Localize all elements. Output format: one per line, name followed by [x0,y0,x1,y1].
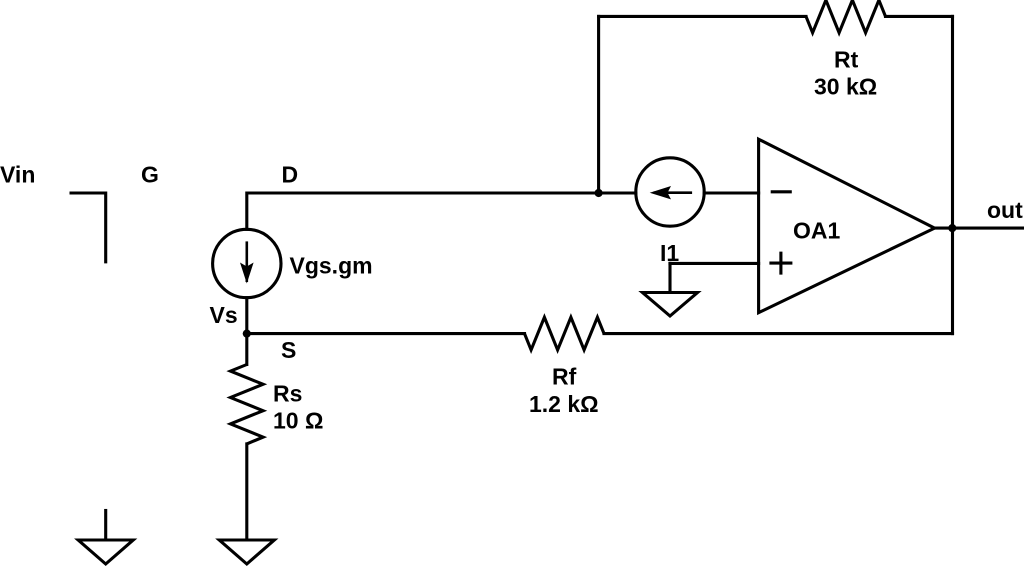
wire below Vgs.gm [245,298,248,365]
wire left feedback vertical [597,16,600,193]
svg-text:10 Ω: 10 Ω [273,407,323,433]
wire below Rs [245,444,248,539]
wire top feedback right segment [886,15,953,18]
wire minus input [704,191,758,194]
current source Vgs.gm arrow shaft [246,241,249,282]
ground under I1 stem [668,263,671,291]
wire right vertical [951,16,954,333]
svg-text:out: out [987,197,1023,223]
current source I1 arrow shaft [654,191,693,194]
ground under I1 triangle [643,293,698,317]
current source Vgs.gm circle [213,229,281,297]
wire Vin L-shape [70,193,106,263]
op-amp plus sign [769,252,792,275]
svg-text:1.2 kΩ: 1.2 kΩ [529,391,599,417]
wire S net right [604,332,953,335]
resistor Rs [231,365,264,444]
ground under Vin triangle [78,540,133,564]
node dot Vs junction [243,330,251,338]
resistor Rt [806,0,886,33]
wire S net left [247,332,525,335]
node dot output junction [948,224,956,232]
wire D net [247,193,636,229]
svg-text:Rf: Rf [552,363,577,389]
ground under Rs triangle [219,540,274,564]
svg-text:Vs: Vs [210,302,238,328]
current source Vgs.gm arrowhead [240,263,254,284]
svg-text:Rs: Rs [273,381,302,407]
svg-text:I1: I1 [660,240,679,266]
resistor Rf [525,317,605,350]
ground under Vin stem [104,511,107,539]
current source I1 circle [636,158,704,226]
svg-text:OA1: OA1 [793,218,841,244]
wire out [935,227,1024,230]
svg-text:30 kΩ: 30 kΩ [814,74,877,100]
wire plus input [670,262,759,265]
svg-text:Rt: Rt [834,47,859,73]
svg-text:S: S [281,337,296,363]
wire top feedback left segment [599,15,806,18]
node dot D/feedback junction [595,189,603,197]
svg-text:Vin: Vin [0,162,35,188]
svg-text:G: G [141,162,159,188]
op-amp OA1 triangle [759,139,935,313]
op-amp minus sign [771,190,792,193]
current source I1 arrowhead [650,186,671,199]
svg-text:Vgs.gm: Vgs.gm [290,252,373,278]
svg-text:D: D [282,162,299,188]
